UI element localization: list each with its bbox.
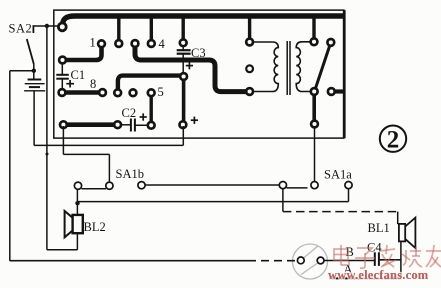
svg-text:BL2: BL2 [84, 220, 106, 234]
svg-text:BL1: BL1 [368, 221, 390, 235]
svg-text:C2: C2 [122, 106, 137, 120]
svg-text:4: 4 [159, 37, 166, 51]
svg-text:1: 1 [90, 36, 96, 50]
svg-text:SA2: SA2 [9, 22, 33, 36]
svg-text:SA1b: SA1b [116, 167, 144, 181]
svg-text:C3: C3 [191, 46, 206, 60]
svg-text:www.elecfans.com: www.elecfans.com [328, 268, 429, 282]
svg-text:SA1a: SA1a [324, 168, 352, 182]
svg-text:5: 5 [158, 85, 164, 99]
svg-text:8: 8 [90, 77, 96, 91]
svg-text:2: 2 [387, 127, 400, 154]
svg-text:C1: C1 [71, 68, 86, 82]
svg-text:B: B [346, 245, 354, 259]
